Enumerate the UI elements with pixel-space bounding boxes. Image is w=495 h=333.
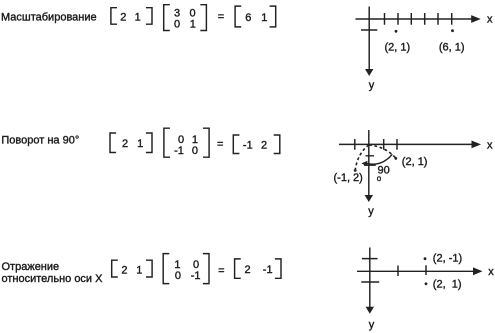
diagram3: point (2,-1) dot: [424, 257, 427, 260]
row3: result [2 -1] digits: [245, 264, 273, 276]
diagram2: y-axis: [368, 130, 370, 196]
svg-text:-1: -1: [174, 145, 184, 157]
diagram2: rotation arc: [366, 154, 393, 164]
row1: matrix [3 0;0 1] left bracket: [164, 5, 170, 31]
svg-text:=: =: [218, 265, 224, 277]
row2: result [-1 2] digits: [243, 139, 267, 151]
row1: vector [2 1] digits: [120, 12, 141, 24]
svg-text:1: 1: [137, 138, 143, 150]
diagram1: y label: [369, 80, 375, 92]
diagram1: label (6,1): [439, 41, 465, 53]
diagram3: y label: [369, 319, 375, 331]
svg-text:(2, 1): (2, 1): [402, 156, 428, 168]
diagram1: point (2,1) dot: [395, 30, 398, 33]
row2: matrix [0 1;-1 0] left bracket: [164, 128, 170, 157]
row1: result [6 1] right bracket: [270, 6, 276, 27]
svg-text:(2, 1): (2, 1): [433, 278, 462, 290]
diagram3: x-axis arrowhead: [473, 267, 483, 275]
svg-text:=: =: [218, 11, 224, 23]
row3: vector [2 1] left bracket: [112, 260, 118, 277]
row3: matrix [1 0;0 -1] left bracket: [163, 254, 169, 284]
svg-text:0: 0: [174, 18, 180, 30]
diagram1: x label: [487, 14, 493, 26]
svg-text:(6, 1): (6, 1): [439, 41, 465, 53]
diagram1: y tick: [361, 29, 377, 31]
diagram2: y label: [368, 206, 374, 218]
svg-text:y: y: [369, 319, 375, 331]
svg-text:2: 2: [120, 12, 126, 24]
row3: result [2 -1] right bracket: [275, 259, 281, 278]
svg-text:1: 1: [190, 18, 196, 30]
svg-text:-1: -1: [191, 270, 201, 282]
diagram3: x ticks: [398, 265, 426, 276]
row3: matrix [1 0;0 -1] right bracket: [203, 254, 209, 284]
diagram2: point (-1,2) dot: [354, 169, 357, 172]
row3: matrix [1 0;0 -1] entries: [174, 259, 200, 282]
svg-text:y: y: [368, 206, 374, 218]
diagram2: rotation arc arrowhead: [361, 161, 367, 166]
svg-text:o: o: [377, 174, 382, 183]
diagram2: y ticks: [364, 156, 376, 165]
diagram2: x label: [487, 139, 493, 151]
diagram3: label (2,-1): [433, 253, 462, 265]
row3: label Отражение относительно оси X: [2, 261, 104, 285]
svg-text:1: 1: [135, 12, 141, 24]
row2: vector [2 1] right bracket: [146, 133, 152, 153]
row2: equals sign: [217, 138, 223, 150]
diagram1: y-axis: [368, 7, 370, 70]
row3: vector [2 1] right bracket: [146, 260, 152, 277]
diagram2: degree symbol: [377, 174, 382, 183]
svg-text:Отражение: Отражение: [2, 261, 60, 273]
svg-text:0: 0: [175, 270, 181, 282]
svg-text:2: 2: [245, 264, 251, 276]
row1: result [6 1] left bracket: [235, 6, 241, 27]
svg-text:Масштабирование: Масштабирование: [1, 12, 97, 24]
diagram2: y-axis arrowhead: [365, 195, 373, 202]
diagram3: point (2,1) dot: [425, 282, 428, 285]
diagram3: label (2,1): [433, 278, 462, 290]
diagram1: x-axis arrowhead: [471, 15, 481, 23]
diagram2: label (-1,2): [334, 172, 363, 184]
svg-text:2: 2: [122, 138, 128, 150]
svg-text:-1: -1: [263, 264, 273, 276]
row1: vector [2 1] left bracket: [111, 8, 117, 25]
row2: vector [2 1] left bracket: [110, 133, 116, 153]
diagram2: x-axis: [339, 143, 473, 145]
svg-text:x: x: [488, 266, 494, 278]
diagram2: angle label 90: [378, 165, 390, 177]
diagram1: point (6,1) dot: [451, 29, 454, 32]
row1: matrix [3 0;0 1] right bracket: [200, 5, 206, 31]
diagram1: y-axis arrowhead: [365, 69, 373, 76]
svg-text:(2, -1): (2, -1): [433, 253, 462, 265]
svg-text:(-1, 2): (-1, 2): [334, 172, 363, 184]
row3: equals sign: [218, 265, 224, 277]
svg-text:2: 2: [261, 139, 267, 151]
row1: label Масштабирование: [1, 12, 97, 24]
svg-text:относительно оси X: относительно оси X: [2, 273, 104, 285]
svg-text:=: =: [217, 138, 223, 150]
svg-text:x: x: [487, 14, 493, 26]
diagram3: y-axis arrowhead: [366, 307, 374, 314]
diagram3: x-axis: [357, 270, 474, 272]
svg-text:1: 1: [136, 265, 142, 277]
row3: vector [2 1] digits: [121, 265, 142, 277]
svg-text:1: 1: [261, 12, 267, 24]
svg-text:0: 0: [192, 145, 198, 157]
svg-text:x: x: [487, 139, 493, 151]
svg-text:y: y: [369, 80, 375, 92]
row1: result [6 1] digits: [245, 12, 267, 24]
svg-text:6: 6: [245, 12, 251, 24]
row1: matrix [3 0;0 1] entries: [174, 8, 196, 31]
row2: result [-1 2] left bracket: [233, 135, 239, 154]
row2: matrix [0 1;-1 0] right bracket: [203, 128, 209, 157]
svg-text:Поворот на 90°: Поворот на 90°: [1, 135, 79, 147]
diagram2: dashed vector to (-1,2): [355, 145, 369, 169]
diagram3: y ticks: [361, 259, 379, 282]
diagram1: x ticks: [385, 13, 452, 25]
diagram3: x label: [488, 266, 494, 278]
diagram2: point (2,1) dot: [394, 157, 397, 160]
row2: result [-1 2] right bracket: [274, 135, 280, 154]
diagram2: x ticks: [355, 139, 397, 150]
svg-text:(2, 1): (2, 1): [385, 41, 411, 53]
diagram3: y-axis: [369, 248, 371, 308]
row3: result [2 -1] left bracket: [235, 259, 241, 278]
svg-text:-1: -1: [243, 139, 253, 151]
row2: matrix [0 1;-1 0] entries: [174, 134, 198, 157]
diagram1: label (2,1): [385, 41, 411, 53]
diagram2: label (2,1): [402, 156, 428, 168]
row1: equals sign: [218, 11, 224, 23]
row1: vector [2 1] right bracket: [146, 8, 152, 25]
diagram1: x-axis: [356, 18, 473, 20]
row2: vector [2 1] digits: [122, 138, 143, 150]
diagram2: x-axis arrowhead: [472, 141, 482, 149]
row2: label Поворот на 90: [1, 135, 79, 147]
diagram2: dashed vector to (2,1): [369, 145, 395, 158]
svg-text:2: 2: [121, 265, 127, 277]
